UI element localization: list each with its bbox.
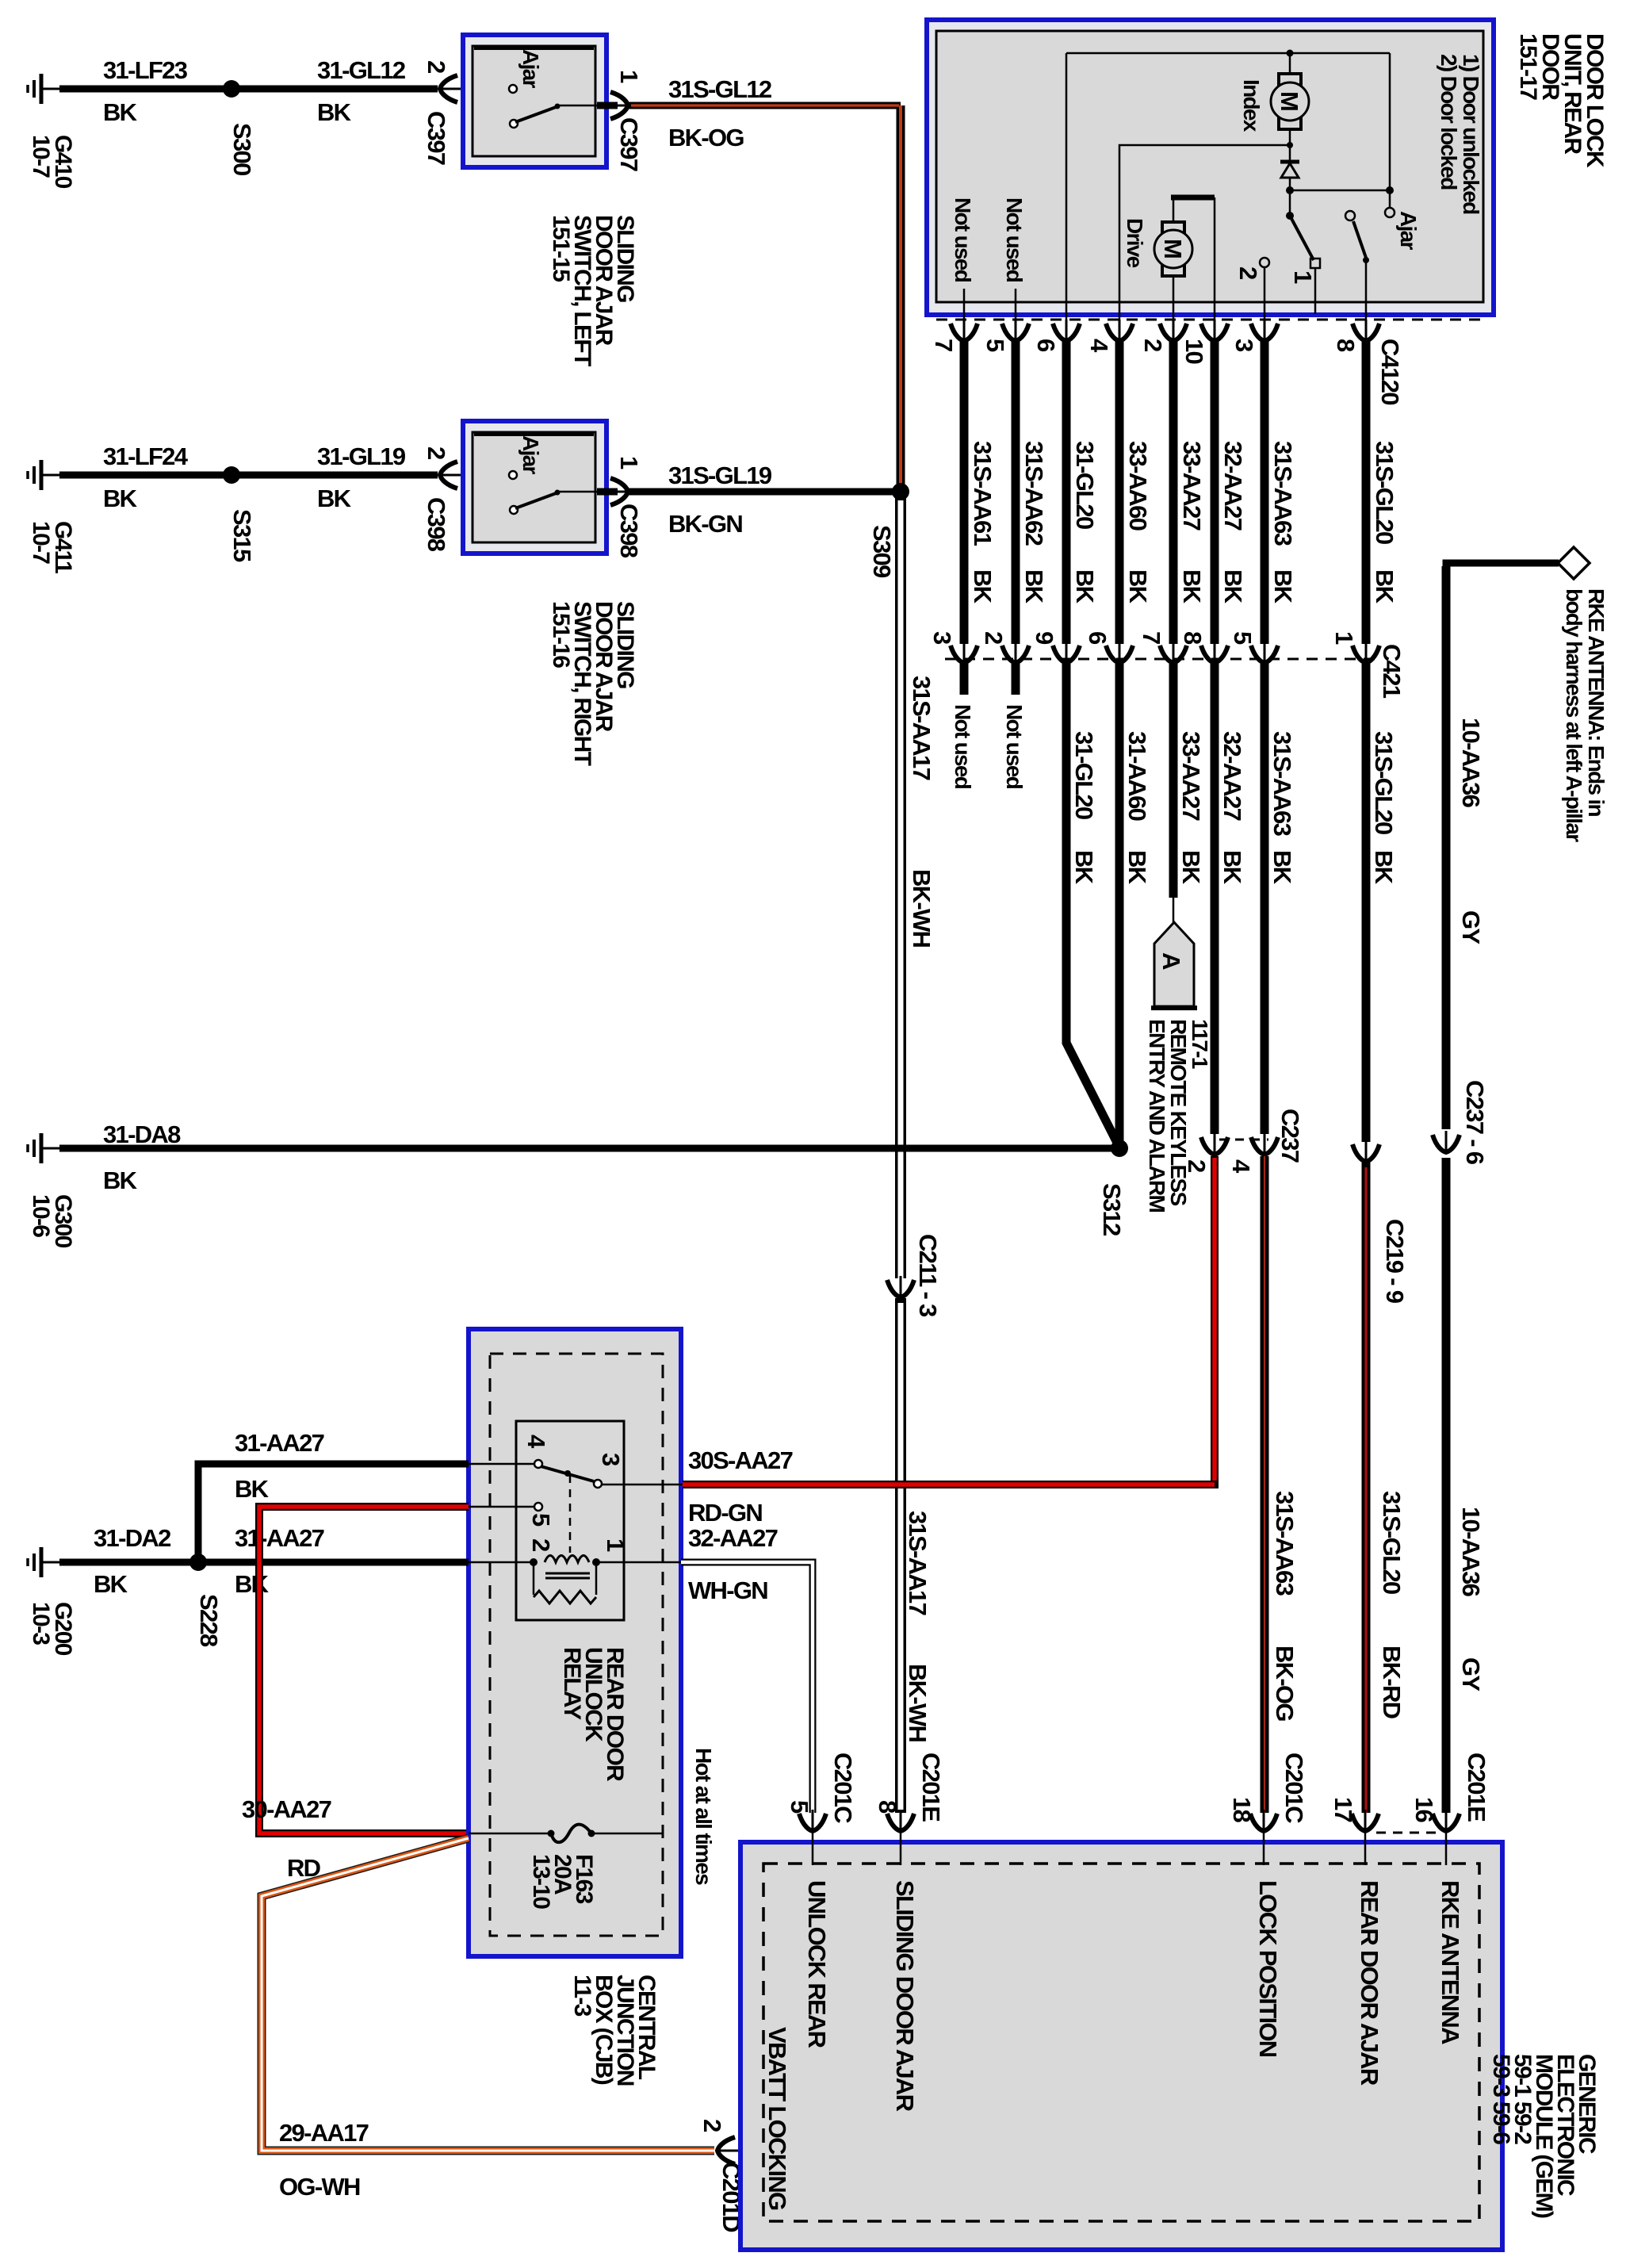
connector C4120 pin 2 (1139, 320, 1187, 351)
svg-text:C201C: C201C (1280, 1753, 1308, 1823)
svg-text:BK: BK (1071, 569, 1099, 604)
svg-text:31-AA27: 31-AA27 (235, 1524, 324, 1552)
svg-text:RKE ANTENNA: Ends in: RKE ANTENNA: Ends in (1584, 588, 1609, 817)
svg-text:BK: BK (235, 1570, 270, 1598)
wire junction to ajar contact rail (1290, 53, 1394, 208)
svg-text:BK: BK (1020, 569, 1048, 604)
svg-text:BK: BK (103, 98, 138, 126)
svg-text:C421: C421 (1378, 644, 1406, 699)
connector C4120 pin 4 (1085, 320, 1133, 353)
svg-text:BK: BK (1269, 569, 1297, 604)
wire 31-DA8 BK (59, 1121, 1119, 1194)
svg-text:RD-GN: RD-GN (688, 1499, 762, 1527)
svg-text:11-3: 11-3 (569, 1975, 595, 2017)
svg-text:3: 3 (597, 1453, 625, 1466)
svg-text:31S-AA63: 31S-AA63 (1268, 731, 1296, 837)
door ajar switch internal (1345, 208, 1421, 320)
svg-text:31-GL20: 31-GL20 (1071, 441, 1099, 529)
svg-text:10-7: 10-7 (28, 521, 54, 564)
svg-text:C201E: C201E (1463, 1753, 1490, 1822)
svg-text:8: 8 (874, 1800, 901, 1814)
connector C201D pin 2 (698, 2119, 745, 2232)
svg-text:S300: S300 (228, 123, 256, 175)
svg-text:C397: C397 (615, 117, 643, 171)
svg-text:LOCK POSITION: LOCK POSITION (1254, 1880, 1282, 2057)
wire 10-AA36 GY upper (1446, 563, 1559, 1129)
wire 31S-AA17 BK-WH upper (901, 492, 935, 1278)
svg-text:32-AA27: 32-AA27 (688, 1524, 778, 1552)
svg-text:31S-AA63: 31S-AA63 (1271, 1491, 1299, 1596)
wire 32-AA27 BK to C237 (1215, 664, 1246, 1134)
svg-text:33-AA27: 33-AA27 (1177, 731, 1205, 821)
svg-text:2: 2 (1234, 266, 1262, 279)
svg-text:31S-AA61: 31S-AA61 (969, 441, 997, 546)
svg-text:BK: BK (103, 485, 138, 512)
ground G300 (28, 1133, 76, 1248)
svg-text:Drive: Drive (1123, 218, 1147, 268)
wire to pin 4 (1119, 142, 1293, 320)
splice S312 (1098, 1140, 1128, 1236)
svg-text:GY: GY (1457, 1657, 1485, 1691)
svg-text:10-AA36: 10-AA36 (1457, 1507, 1485, 1597)
wire 31S-GL12 BK-OG (629, 75, 901, 490)
wire 31S-GL20 BK (1366, 340, 1398, 644)
wire 30S-AA27 RD-GN horizontal (683, 1446, 1219, 1527)
svg-text:8: 8 (1332, 339, 1360, 352)
connector C237 - 6 (1433, 1080, 1489, 1165)
fuse F163 20A 13-10 (469, 1825, 663, 1910)
svg-text:10-6: 10-6 (28, 1194, 54, 1237)
connector C237 dashed link (1219, 1139, 1268, 1141)
wire 32-AA27 BK (1215, 340, 1247, 644)
svg-text:5: 5 (527, 1513, 555, 1527)
svg-text:Not used: Not used (951, 197, 975, 282)
switch contacts and blade left switch (509, 85, 618, 128)
connector C4120 pin 6 (1032, 320, 1080, 352)
svg-text:31S-GL20: 31S-GL20 (1378, 1491, 1406, 1594)
svg-text:S309: S309 (868, 525, 896, 578)
svg-text:UNLOCK REAR: UNLOCK REAR (803, 1880, 831, 2048)
connector C4120 dashed line (936, 319, 1488, 321)
connector C421 pin 5 (1229, 631, 1278, 663)
svg-text:31S-AA63: 31S-AA63 (1269, 441, 1297, 546)
wire internal top rail (1066, 52, 1390, 55)
svg-text:10-AA36: 10-AA36 (1457, 718, 1485, 808)
wire 31-LF24 BK (59, 442, 231, 512)
not used stub pin 2 (1002, 664, 1027, 789)
svg-text:151-16: 151-16 (548, 601, 574, 668)
connector C211 - 3 (887, 1234, 942, 1317)
svg-text:A: A (1157, 952, 1185, 970)
svg-text:BK-OG: BK-OG (668, 124, 744, 151)
svg-text:body harness at left A-pillar: body harness at left A-pillar (1562, 588, 1586, 842)
svg-text:BK-OG: BK-OG (1271, 1645, 1299, 1721)
svg-text:30S-AA27: 30S-AA27 (688, 1446, 793, 1474)
connector C219 - 9 (1352, 1140, 1409, 1304)
sliding door ajar switch left box (463, 35, 606, 167)
wire 31-AA60 BK to S312 (1119, 664, 1151, 1148)
svg-text:31S-GL19: 31S-GL19 (668, 462, 772, 489)
svg-text:2: 2 (698, 2119, 726, 2132)
splice S228 (189, 1554, 223, 1647)
svg-text:3: 3 (928, 631, 956, 645)
wire 31-GL20 BK (1066, 340, 1099, 644)
diode (1280, 145, 1299, 190)
svg-text:C398: C398 (423, 497, 450, 552)
wire 31-AA27 BK lower (198, 1524, 469, 1598)
svg-text:10-7: 10-7 (28, 135, 54, 178)
svg-text:31S-GL20: 31S-GL20 (1370, 731, 1398, 834)
connector GEM pin 16 (1410, 1753, 1490, 2044)
connector C421 pin 2 (980, 631, 1029, 663)
relay dashed link (569, 1475, 572, 1553)
svg-text:2: 2 (980, 631, 1008, 644)
svg-text:S312: S312 (1098, 1183, 1126, 1236)
node diode junction (1286, 186, 1294, 194)
svg-text:RELAY: RELAY (559, 1647, 585, 1720)
wire 33-AA27 BK (1173, 340, 1206, 644)
svg-text:BK: BK (1070, 850, 1098, 885)
svg-text:BK: BK (1370, 850, 1398, 885)
svg-text:BK: BK (1177, 850, 1205, 885)
wire 10-AA36 GY lower (1446, 1158, 1485, 1813)
central junction box CJB (469, 1329, 681, 1956)
svg-text:7: 7 (930, 339, 958, 351)
connector C421 pin 9 (1031, 631, 1080, 663)
svg-text:5: 5 (786, 1800, 813, 1814)
connector C4120 pin 8 (1332, 320, 1379, 352)
svg-text:C237: C237 (1276, 1109, 1304, 1163)
svg-text:Ajar: Ajar (518, 49, 543, 88)
svg-text:1) Door unlocked: 1) Door unlocked (1459, 54, 1483, 214)
svg-text:C398: C398 (615, 504, 643, 558)
svg-text:2: 2 (527, 1538, 555, 1551)
svg-text:6: 6 (1032, 339, 1060, 352)
remote keyless entry and alarm module A 117-1 (1145, 898, 1212, 1212)
svg-text:WH-GN: WH-GN (688, 1576, 767, 1604)
svg-text:3: 3 (1230, 339, 1258, 352)
svg-text:31-GL12: 31-GL12 (317, 56, 405, 84)
svg-text:31-GL19: 31-GL19 (317, 442, 406, 470)
wire 31-GL19 BK (231, 442, 438, 512)
svg-text:29-AA17: 29-AA17 (279, 2119, 369, 2147)
ground G411 (28, 460, 76, 573)
svg-text:BK: BK (317, 485, 352, 512)
motor M Drive (1123, 197, 1215, 320)
svg-text:BK: BK (1219, 850, 1246, 885)
svg-text:BK: BK (235, 1475, 270, 1503)
svg-text:31-AA60: 31-AA60 (1123, 731, 1151, 821)
svg-text:32-AA27: 32-AA27 (1219, 731, 1246, 821)
svg-text:VBATT LOCKING: VBATT LOCKING (763, 2027, 791, 2210)
svg-text:33-AA27: 33-AA27 (1178, 441, 1206, 531)
connector C237 pin 4 (1227, 1133, 1278, 1174)
generic electronic module GEM box (740, 1842, 1502, 2250)
svg-text:BK: BK (1268, 850, 1296, 885)
svg-text:BK: BK (1124, 569, 1152, 604)
svg-text:4: 4 (522, 1435, 550, 1449)
svg-text:1: 1 (1289, 270, 1317, 284)
not used stub pin 3 (951, 664, 975, 789)
connector C421 pin 3 (928, 631, 978, 663)
wire internal left vertical to pin 6 (1066, 53, 1068, 320)
svg-text:31S-AA17: 31S-AA17 (904, 1511, 932, 1615)
svg-text:5: 5 (1229, 631, 1257, 645)
rear door unlock relay box (516, 1421, 624, 1620)
svg-text:S315: S315 (228, 509, 256, 562)
connector C421 pin 7 (1138, 631, 1187, 663)
not used internal pin 7 (951, 197, 975, 320)
connector GEM pin 17 (1330, 1797, 1383, 2086)
svg-text:Index: Index (1239, 79, 1264, 132)
svg-text:1: 1 (615, 456, 643, 469)
svg-text:31S-GL12: 31S-GL12 (668, 75, 771, 103)
svg-text:17: 17 (1330, 1797, 1357, 1822)
svg-text:6: 6 (1084, 631, 1111, 645)
svg-text:C4120: C4120 (1376, 339, 1404, 404)
svg-text:BK: BK (1219, 569, 1247, 604)
sliding door ajar switch right box (463, 421, 606, 554)
svg-text:10: 10 (1180, 339, 1208, 364)
svg-text:31-DA2: 31-DA2 (94, 1524, 170, 1552)
connector C397 pin 2 (423, 60, 513, 165)
wire 32-AA27 WH-GN (624, 1524, 813, 1813)
wire 31-GL20 BK to S312 (1066, 664, 1118, 1144)
svg-text:2: 2 (423, 60, 450, 73)
relay pin 4 (469, 1435, 550, 1468)
splice S300 (223, 80, 256, 175)
svg-text:BK: BK (103, 1167, 138, 1194)
wire 30S-AA27 RD-GN vertical (1211, 1156, 1219, 1488)
svg-text:Hot at all times: Hot at all times (691, 1748, 716, 1885)
svg-text:31S-AA62: 31S-AA62 (1020, 441, 1048, 546)
relay pin 5 (469, 1503, 555, 1527)
svg-text:31-LF24: 31-LF24 (103, 442, 189, 470)
connector C398 pin 2 (423, 446, 513, 552)
wire 31-LF23 BK (59, 56, 231, 126)
svg-text:4: 4 (1085, 339, 1113, 353)
connector C397 pin 1 (606, 70, 643, 171)
wire 31S-AA17 BK-WH lower (901, 1298, 932, 1813)
svg-text:RKE ANTENNA: RKE ANTENNA (1437, 1880, 1464, 2044)
wire 33-AA60 BK (1119, 340, 1152, 644)
svg-text:BK-WH: BK-WH (908, 869, 935, 948)
svg-text:C219 - 9: C219 - 9 (1381, 1219, 1409, 1304)
svg-text:1: 1 (1330, 631, 1358, 645)
svg-text:2: 2 (1183, 1159, 1211, 1172)
svg-text:32-AA27: 32-AA27 (1219, 441, 1247, 531)
wire 31S-AA63 BK-OG to GEM (1264, 1156, 1299, 1813)
svg-text:1: 1 (615, 70, 643, 83)
wire 31-DA2 BK (59, 1524, 198, 1598)
svg-text:31-GL20: 31-GL20 (1070, 731, 1098, 819)
connector GEM pin 8 (874, 1753, 945, 2112)
svg-text:C237 - 6: C237 - 6 (1461, 1080, 1489, 1165)
svg-text:Not used: Not used (1002, 197, 1027, 282)
wire 30-AA27 RD (242, 1507, 469, 1882)
svg-text:Not used: Not used (951, 704, 975, 789)
svg-text:31S-GL20: 31S-GL20 (1371, 441, 1398, 544)
relay switch blade (541, 1453, 625, 1488)
svg-text:59-3 59-6: 59-3 59-6 (1488, 2054, 1514, 2144)
switch contacts and blade right switch (509, 471, 618, 514)
svg-text:13-10: 13-10 (528, 1854, 554, 1909)
svg-text:BK: BK (317, 98, 352, 126)
svg-text:Ajar: Ajar (518, 435, 543, 474)
svg-text:4: 4 (1227, 1159, 1255, 1174)
svg-text:M: M (1276, 91, 1303, 110)
svg-text:18: 18 (1228, 1797, 1256, 1823)
wire 31S-AA62 BK (1016, 340, 1048, 644)
svg-text:9: 9 (1031, 631, 1058, 645)
svg-text:31-DA8: 31-DA8 (103, 1121, 181, 1148)
svg-text:GY: GY (1457, 910, 1485, 944)
connector C4120 pin 10 (1180, 320, 1228, 364)
svg-text:ENTRY AND ALARM: ENTRY AND ALARM (1145, 1019, 1169, 1212)
lock position switch (1286, 190, 1320, 314)
ground G410 (28, 74, 76, 189)
svg-text:30-AA27: 30-AA27 (242, 1795, 331, 1823)
svg-text:C211 - 3: C211 - 3 (914, 1234, 942, 1317)
connector GEM pin 18 (1228, 1753, 1308, 2057)
svg-text:M: M (1159, 239, 1187, 258)
svg-text:31-LF23: 31-LF23 (103, 56, 188, 84)
svg-text:BK-RD: BK-RD (1378, 1645, 1406, 1719)
svg-text:16: 16 (1410, 1797, 1438, 1823)
connector C421 dashed line (945, 658, 1379, 661)
svg-text:7: 7 (1138, 631, 1165, 644)
connector C237 pin 2 (1183, 1133, 1228, 1172)
connector C4120 pin 7 (930, 320, 978, 351)
svg-text:Ajar: Ajar (1396, 211, 1421, 250)
svg-text:OG-WH: OG-WH (279, 2173, 360, 2201)
node rail junction (1287, 50, 1294, 57)
svg-text:33-AA60: 33-AA60 (1124, 441, 1152, 531)
svg-text:C201E: C201E (917, 1753, 945, 1822)
door lock unit rear door box 151-17 (927, 20, 1494, 315)
svg-text:1: 1 (602, 1538, 629, 1552)
splice S315 (223, 466, 256, 562)
svg-text:BK-WH: BK-WH (904, 1664, 932, 1742)
relay coil and resistor (469, 1538, 629, 1603)
svg-text:BK-GN: BK-GN (668, 510, 742, 538)
svg-text:C201C: C201C (829, 1753, 857, 1823)
connector C201E dashed link (1376, 1832, 1437, 1834)
svg-text:2: 2 (423, 446, 450, 459)
connector C421 pin 6 (1084, 631, 1133, 663)
svg-text:151-15: 151-15 (548, 215, 574, 282)
wire 31-AA27 BK upper (198, 1429, 469, 1562)
svg-text:8: 8 (1179, 631, 1207, 645)
svg-text:C397: C397 (423, 111, 450, 165)
svg-text:BK: BK (94, 1570, 128, 1598)
connector GEM pin 5 (786, 1753, 857, 2048)
wire 31S-AA63 BK to C237 (1264, 664, 1296, 1134)
svg-text:REAR DOOR AJAR: REAR DOOR AJAR (1356, 1880, 1383, 2086)
lock switch contact 2 to pin 3 (1234, 258, 1269, 320)
connector C4120 pin 3 (1230, 320, 1278, 352)
wire 29-AA17 OG-WH (262, 1838, 714, 2201)
svg-text:BK: BK (1371, 569, 1398, 604)
RKE antenna terminal diamond (1558, 547, 1609, 842)
connector C398 pin 1 (606, 456, 643, 558)
svg-text:31S-AA17: 31S-AA17 (908, 676, 935, 780)
wire 31S-GL20 BK to C219 (1366, 664, 1398, 1142)
svg-text:BK: BK (1123, 850, 1151, 885)
wire 31S-GL19 BK-GN (629, 462, 901, 538)
splice S309 (868, 483, 909, 578)
wire 31S-AA61 BK (964, 340, 997, 644)
svg-text:S228: S228 (195, 1594, 223, 1647)
svg-text:BK: BK (969, 569, 997, 604)
svg-text:2) Door locked: 2) Door locked (1437, 54, 1461, 190)
motor M Index (1239, 53, 1309, 145)
not used internal pin 5 (1002, 197, 1027, 320)
svg-text:SLIDING DOOR AJAR: SLIDING DOOR AJAR (891, 1880, 919, 2112)
connector C421 pin 8 (1179, 631, 1228, 663)
ground G200 (28, 1547, 76, 1656)
svg-text:10-3: 10-3 (28, 1602, 54, 1645)
connector C4120 pin 5 (981, 320, 1029, 352)
relay pin 3 wire to red (602, 1484, 683, 1486)
wire 33-AA27 BK to RKE module (1173, 664, 1205, 898)
svg-text:151-17: 151-17 (1515, 33, 1541, 100)
wire 31S-AA63 BK (1264, 340, 1297, 644)
connector C421 pin 1 (1330, 631, 1379, 663)
svg-text:Not used: Not used (1002, 704, 1027, 789)
svg-text:2: 2 (1139, 339, 1167, 351)
svg-text:31-AA27: 31-AA27 (235, 1429, 324, 1457)
wire 31S-GL20 BK-RD to GEM (1366, 1163, 1406, 1813)
wire 31-GL12 BK (231, 56, 438, 126)
svg-text:5: 5 (981, 339, 1009, 352)
svg-text:BK: BK (1178, 569, 1206, 604)
